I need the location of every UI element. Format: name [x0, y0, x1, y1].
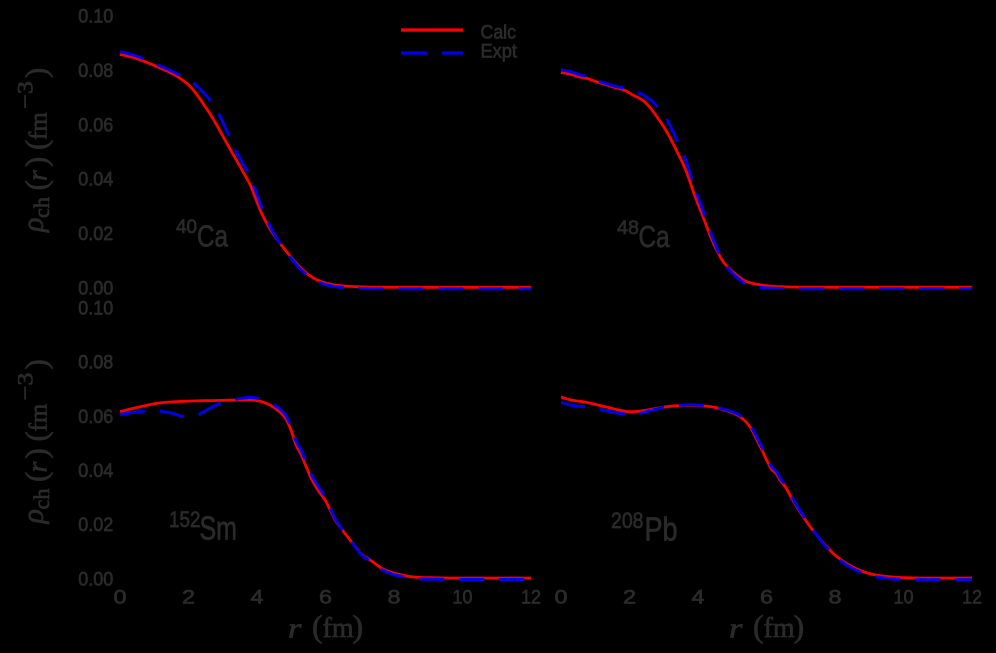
- svg-text:0.08: 0.08: [78, 352, 113, 374]
- svg-text:): ): [19, 359, 54, 369]
- svg-text:8: 8: [388, 586, 401, 608]
- svg-text:4: 4: [692, 586, 705, 608]
- svg-text:0.06: 0.06: [78, 114, 113, 136]
- svg-text:r: r: [23, 462, 54, 473]
- svg-text:4: 4: [251, 586, 264, 608]
- curve 40Ca Expt blue dashed: [120, 52, 531, 289]
- svg-text:0: 0: [555, 586, 568, 608]
- svg-text:40: 40: [176, 217, 197, 238]
- x tick labels left panel: [114, 586, 542, 608]
- curve 208Pb Calc red solid: [561, 397, 972, 578]
- svg-text:): ): [19, 157, 54, 167]
- svg-text:0.02: 0.02: [78, 514, 113, 536]
- svg-text:): ): [19, 68, 54, 78]
- svg-text:fm: fm: [323, 613, 354, 644]
- svg-text:(: (: [19, 140, 54, 150]
- svg-text:48: 48: [617, 218, 639, 239]
- svg-text:152: 152: [169, 507, 201, 532]
- svg-text:6: 6: [319, 586, 332, 608]
- svg-text:(: (: [753, 608, 764, 644]
- svg-text:(: (: [312, 608, 323, 644]
- curve 48Ca Calc red solid: [561, 73, 972, 288]
- svg-text:10: 10: [453, 586, 473, 608]
- svg-text:ch: ch: [29, 197, 54, 218]
- svg-text:): ): [19, 448, 54, 458]
- svg-text:0.10: 0.10: [78, 297, 113, 319]
- curve 40Ca Calc red solid: [120, 54, 531, 287]
- legend line Expt (blue dashed): [401, 51, 463, 54]
- curve 152Sm Expt blue dashed: [120, 397, 531, 579]
- svg-text:fm: fm: [26, 112, 53, 140]
- svg-text:8: 8: [829, 586, 842, 608]
- svg-text:10: 10: [894, 586, 914, 608]
- svg-text:−3: −3: [13, 81, 38, 109]
- svg-text:12: 12: [962, 586, 982, 608]
- svg-text:0: 0: [114, 586, 127, 608]
- svg-text:ρ: ρ: [17, 509, 50, 524]
- svg-text:(: (: [19, 431, 54, 441]
- x tick labels right panel: [555, 586, 983, 608]
- svg-text:0.00: 0.00: [78, 568, 113, 590]
- curve 48Ca Expt blue dashed: [561, 70, 972, 289]
- svg-text:): ): [794, 608, 805, 644]
- svg-text:Ca: Ca: [639, 220, 670, 254]
- svg-text:0.10: 0.10: [78, 6, 113, 28]
- svg-text:ρ: ρ: [17, 218, 50, 233]
- svg-text:Sm: Sm: [200, 510, 238, 547]
- svg-text:Ca: Ca: [197, 220, 228, 254]
- svg-text:fm: fm: [26, 403, 53, 431]
- curve 208Pb Expt blue dashed: [561, 402, 972, 580]
- svg-text:208: 208: [611, 508, 644, 533]
- svg-text:0.04: 0.04: [78, 460, 113, 482]
- svg-text:0.06: 0.06: [78, 406, 113, 428]
- svg-text:Expt: Expt: [481, 41, 518, 63]
- svg-text:6: 6: [760, 586, 773, 608]
- svg-text:Pb: Pb: [645, 511, 678, 548]
- svg-text:2: 2: [623, 586, 636, 608]
- svg-text:): ): [353, 608, 364, 644]
- svg-text:r: r: [729, 613, 743, 645]
- svg-text:r: r: [288, 613, 302, 645]
- svg-text:2: 2: [182, 586, 195, 608]
- svg-text:r: r: [23, 170, 54, 181]
- svg-text:0.00: 0.00: [78, 278, 113, 300]
- svg-text:fm: fm: [764, 613, 795, 644]
- svg-text:ch: ch: [29, 489, 54, 510]
- svg-text:0.08: 0.08: [78, 60, 113, 82]
- y axis label rho_ch(r) (fm^-3) bottom row: [13, 359, 55, 524]
- curve 152Sm Calc red solid: [120, 400, 531, 578]
- svg-text:0.04: 0.04: [78, 169, 113, 191]
- svg-text:12: 12: [521, 586, 541, 608]
- svg-text:−3: −3: [13, 373, 38, 401]
- y axis label rho_ch(r) (fm^-3) top row: [13, 68, 55, 233]
- legend line Calc (red solid): [401, 28, 463, 31]
- svg-text:0.02: 0.02: [78, 223, 113, 245]
